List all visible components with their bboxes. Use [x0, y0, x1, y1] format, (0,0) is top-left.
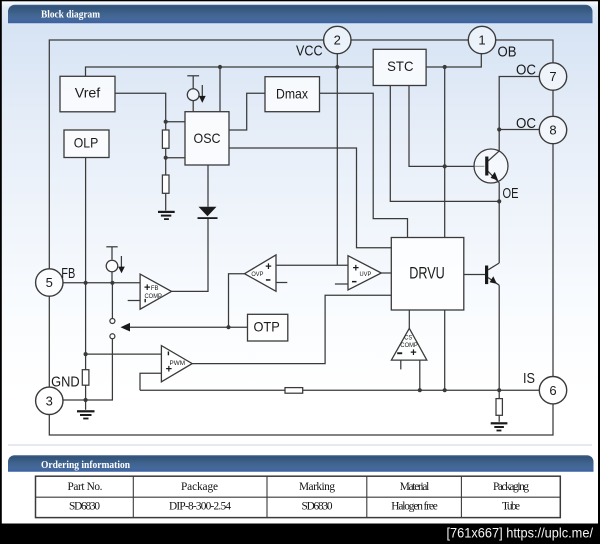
svg-text:+: + — [353, 263, 359, 275]
svg-text:OE: OE — [503, 185, 519, 202]
svg-text:[761x667] https://uplc.me/: [761x667] https://uplc.me/ — [447, 525, 594, 540]
svg-text:Part No.: Part No. — [68, 481, 103, 493]
svg-text:DRVU: DRVU — [409, 263, 445, 282]
svg-text:+: + — [265, 261, 271, 273]
svg-text:OTP: OTP — [253, 318, 279, 334]
svg-text:FB: FB — [151, 285, 159, 292]
svg-text:OB: OB — [498, 44, 517, 61]
svg-text:3: 3 — [46, 393, 53, 408]
svg-text:COMP: COMP — [145, 293, 163, 300]
svg-text:FB: FB — [61, 265, 75, 282]
svg-text:OVP: OVP — [251, 271, 263, 278]
svg-text:Dmax: Dmax — [276, 86, 308, 102]
svg-text:OSC: OSC — [194, 130, 221, 146]
svg-text:6: 6 — [549, 383, 556, 398]
svg-text:Marking: Marking — [299, 481, 335, 493]
svg-text:+: + — [410, 347, 416, 359]
svg-text:SD6830: SD6830 — [302, 501, 333, 513]
svg-text:CS: CS — [404, 334, 412, 341]
svg-text:OC: OC — [516, 115, 536, 132]
svg-text:GND: GND — [51, 374, 80, 391]
svg-text:Material: Material — [400, 481, 430, 493]
svg-text:7: 7 — [549, 69, 556, 84]
svg-text:Block diagram: Block diagram — [41, 9, 100, 21]
svg-text:+: + — [166, 364, 172, 376]
svg-text:5: 5 — [46, 275, 53, 290]
svg-text:DIP-8-300-2.54: DIP-8-300-2.54 — [169, 501, 231, 513]
svg-text:Package: Package — [181, 481, 218, 493]
svg-text:SD6830: SD6830 — [69, 501, 100, 513]
svg-text:UVP: UVP — [360, 271, 372, 278]
svg-text:Vref: Vref — [75, 85, 101, 101]
svg-text:Halogen free: Halogen free — [391, 501, 438, 513]
svg-text:Packaging: Packaging — [493, 481, 529, 493]
svg-text:STC: STC — [387, 58, 413, 74]
svg-text:Ordering information: Ordering information — [41, 459, 130, 471]
svg-text:IS: IS — [523, 370, 535, 387]
svg-text:OC: OC — [516, 62, 536, 79]
svg-text:8: 8 — [549, 123, 556, 138]
svg-text:OLP: OLP — [74, 134, 99, 150]
svg-text:Tube: Tube — [502, 501, 520, 513]
svg-text:2: 2 — [334, 33, 341, 48]
svg-text:1: 1 — [478, 33, 485, 48]
svg-text:VCC: VCC — [296, 43, 323, 60]
